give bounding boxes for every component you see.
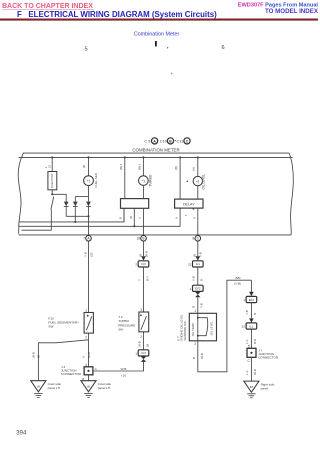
title rule [0,19,318,21]
svg-text:22: 22 [188,262,192,266]
svg-text:W-B: W-B [121,367,127,371]
svg-text:B: B [119,217,123,219]
connector arrow down [249,318,254,322]
rheostat switch exit wire [22,210,52,231]
wire [250,303,252,319]
block top inner edge [19,156,293,158]
svg-text:CONNECTOR: CONNECTOR [61,372,82,376]
svg-text:FUEL SED: FUEL SED [94,172,98,187]
wire: drop to bus1 [74,216,76,222]
svg-text:W-B: W-B [253,369,257,375]
node: top line tap 1 [124,156,126,158]
svg-text:B/R: B/R [235,276,241,280]
svg-text:A: A [82,356,86,358]
svg-text:C 9: C 9 [144,139,150,144]
wire: slant to left ground branch [38,340,88,381]
svg-text:A: A [192,217,196,219]
wire: lamp to delay unit [197,186,199,199]
junction connector J7 [247,348,256,357]
svg-text:F ELECTRICAL WIRING DIAGRAM: F ELECTRICAL WIRING DIAGRAM (System Circ… [17,10,217,19]
svg-text:Combination Meter: Combination Meter [134,31,180,37]
stray dot [187,181,189,183]
connector id row: C 9 (A) C10 (B) C11 (C) [144,138,190,144]
wire: J3 to T2 branch [93,362,144,371]
node: top line tap 3 [179,156,181,158]
wire: down to pin A7 [88,216,90,235]
svg-text:+): +) [196,180,199,184]
svg-text:C11: C11 [176,139,183,144]
svg-text:Y-B: Y-B [245,310,249,315]
svg-text:B: B [142,237,144,241]
wire: D2 to bottom bus [74,206,76,216]
switch T2 TURBO PRESSURE SW [139,312,149,332]
connector EF2 (right) [246,296,257,302]
svg-text:1: 1 [194,309,196,313]
diode D1 [64,202,69,207]
svg-text:BACK TO CHAPTER INDEX: BACK TO CHAPTER INDEX [2,3,93,10]
svg-text:394: 394 [16,430,27,436]
svg-text:+): +) [87,179,90,183]
svg-text:C10: C10 [160,139,168,144]
wire: node to diode D1 [52,194,66,201]
svg-text:(1-B): (1-B) [234,282,241,286]
svg-text:1 A: 1 A [245,340,249,344]
node: top line tap 2 [142,156,144,158]
svg-text:W-B: W-B [144,251,148,257]
svg-text:I 16: I 16 [121,374,126,378]
connector IL1 [193,261,204,267]
small dot mark [167,47,168,48]
svg-text:7: 7 [83,237,85,241]
wire: IC3 to T2 [143,267,145,312]
svg-text:Y: Y [137,279,141,281]
svg-text:B-R: B-R [253,338,257,344]
svg-text:IM: IM [250,385,254,389]
wire: to E7 [197,297,199,313]
junction connector J3 [84,367,93,375]
block bottom edge [19,234,292,236]
wire: E7 to right riser [198,280,252,372]
svg-text:OIL TEMP: OIL TEMP [191,323,195,336]
svg-text:RHEOSTAT: RHEOSTAT [50,173,54,188]
wire: T2 to IC3 lower [143,332,145,350]
svg-text:Y: Y [138,217,142,219]
wire: J3 to ground [88,375,90,381]
internal bus wire 2 [19,208,180,226]
internal bus wire 1 [19,208,124,222]
svg-text:panel LH: panel LH [98,386,110,390]
connector arrow down [196,256,201,260]
ground: right side panel [244,381,259,392]
switch F10 FUEL SEDIMENTARY SW [84,313,93,334]
wire: to meter box [124,157,126,198]
wire: gauge to D3 [88,186,90,197]
wire: down to J3 [88,340,90,367]
svg-text:OIL LEVEL: OIL LEVEL [210,321,214,336]
connector IC3 (lower) [138,350,149,356]
svg-text:W-B: W-B [137,341,141,347]
wire: pin B18 down [143,241,145,256]
svg-text:panel LH: panel LH [48,386,60,390]
svg-text:1 A: 1 A [245,371,249,375]
svg-text:IC3: IC3 [141,351,146,355]
svg-text:Y-B: Y-B [83,252,87,257]
node: fuel gauge feed tap [87,156,89,158]
svg-text:W-B: W-B [31,352,35,358]
connector arrow down [249,292,254,296]
svg-text:(B)-1: (B)-1 [138,163,142,170]
ground: cowl side panel LH (left) [31,381,46,392]
rheostat R1 [48,172,57,190]
svg-text:SW: SW [118,328,123,332]
svg-text:EF2: EF2 [249,298,255,302]
diode top bus [75,196,88,198]
combination meter block torn left edge [18,153,23,234]
diode bottom bus [66,215,88,217]
wire: to oil level lamp [197,157,199,176]
delay unit box [175,199,203,208]
wire: right branch down [250,280,252,292]
node: top line tap 4 [197,156,199,158]
wire: to diode D2 [74,197,76,202]
svg-text:B-Y: B-Y [145,276,149,281]
wire: D1 to bottom bus [65,206,67,216]
svg-text:panel: panel [261,387,269,391]
ground: cowl side panel LH (centre) [81,381,96,392]
lamp: OIL LEVEL [193,176,202,185]
stray speck [171,73,173,75]
svg-text:6: 6 [222,45,225,51]
wire: rheostat to node [51,190,53,195]
gauge: CHARGE [139,176,149,186]
svg-text:COMBINATION METER: COMBINATION METER [132,147,179,152]
wire: pin A7 down to F10 [88,241,90,312]
svg-text:(B: (B [82,165,86,168]
combination meter block torn right edge [289,153,294,235]
svg-text:22: 22 [242,325,246,329]
svg-text:(B): (B) [174,166,178,170]
svg-text:W-B: W-B [87,352,91,358]
svg-text:2: 2 [85,336,87,340]
svg-text:A: A [175,217,179,219]
svg-text:+): +) [142,179,145,183]
svg-text:B: B [200,279,204,281]
svg-text:(B: (B [37,355,41,358]
wire: IL1 to EF2 [197,267,199,285]
wire: pin C8 down [197,241,199,256]
wire: U1 right stub to pin B [143,208,145,235]
wire: J7 to ground [250,357,252,381]
svg-text:W-B: W-B [200,353,204,359]
svg-text:Y-B: Y-B [192,276,196,281]
svg-text:IH: IH [87,384,90,388]
wire: F10 out [88,333,90,340]
wire: fuel gauge feed [88,157,90,175]
node: bus1 junction [74,221,76,223]
switch E7 ENGINE OIL LEVEL WARNING SW [189,313,216,341]
svg-text:5: 5 [85,46,88,52]
svg-text:CONNECTOR: CONNECTOR [258,355,279,359]
svg-text:TO MODEL INDEX: TO MODEL INDEX [265,8,319,15]
connector IL1 (right) [246,323,257,329]
svg-text:IH: IH [37,384,40,388]
node: rheostat feed tap [51,156,53,158]
node: rheostat output [51,193,53,195]
svg-text:(B)-1: (B)-1 [119,163,123,170]
gauge: FUEL [84,176,94,186]
svg-text:IL1: IL1 [249,324,253,328]
diode D3 [86,202,91,207]
svg-text:EF2: EF2 [195,287,201,291]
svg-text:B: B [192,357,196,359]
svg-text:1: 1 [85,309,87,313]
connector bowtie arrow [195,292,200,295]
svg-text:SW: SW [48,324,53,328]
wire: U1 stub to bus1 [123,208,125,222]
svg-text:(B: (B [145,344,149,347]
switch S1 blade [51,197,54,210]
svg-text:2J: 2J [47,164,51,168]
diode D2 [73,202,78,207]
svg-text:W: W [129,216,133,219]
svg-text:WARNING SW: WARNING SW [183,321,187,341]
svg-text:(2E: (2E [89,252,93,257]
svg-text:IC3: IC3 [141,262,146,266]
wire: rheostat feed [51,157,53,171]
wire [250,329,252,348]
node: D3 bottom junction [87,215,89,217]
svg-text:8: 8 [193,237,195,241]
svg-text:B: B [192,306,196,308]
connector arrow down [141,256,146,260]
node: bus2 junction [133,225,135,227]
svg-text:18: 18 [136,237,140,241]
svg-text:A: A [95,367,97,371]
wire: to charge gauge [142,157,144,175]
svg-text:OIL LEVEL: OIL LEVEL [202,173,206,189]
svg-text:DELAY: DELAY [183,203,195,207]
svg-text:B: B [253,313,257,315]
block top outer edge [24,152,289,154]
connector bowtie arrow [141,356,146,359]
svg-text:Y-B: Y-B [200,303,204,308]
wire: U1 middle stub to bus2 [133,208,135,226]
wire: delay right stub to pin C [197,208,199,236]
connector IC3 (upper) [138,261,149,267]
column tick mark [155,41,157,46]
wire: charge gauge to box [142,185,144,198]
wire: through D3 [88,197,90,202]
svg-text:2: 2 [194,342,196,346]
svg-text:2: 2 [140,335,142,339]
svg-text:IL1: IL1 [196,262,200,266]
svg-text:TURBO: TURBO [148,174,152,186]
svg-text:(A): (A) [192,167,196,171]
connector EF2 [193,285,204,291]
wire: to delay unit [179,157,181,199]
meter driver box U1 [121,199,149,209]
